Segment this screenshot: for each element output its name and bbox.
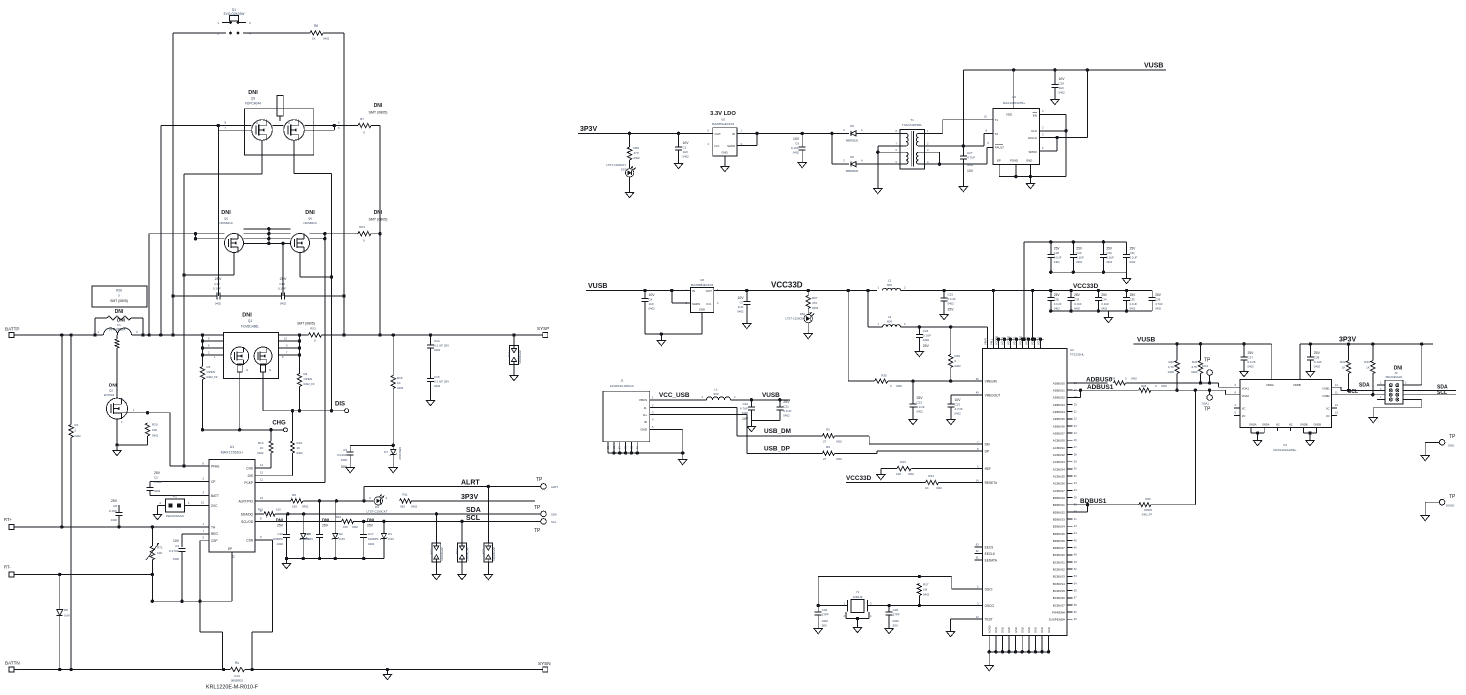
svg-text:VDD: VDD — [1006, 113, 1013, 117]
svg-text:T2: T2 — [995, 132, 999, 136]
net SCL — [466, 515, 481, 522]
ground — [510, 372, 518, 381]
svg-text:0402: 0402 — [1106, 260, 1112, 264]
svg-text:ACBUS4: ACBUS4 — [1053, 467, 1065, 471]
net SDA — [466, 507, 481, 514]
svg-text:R50: R50 — [1145, 497, 1151, 501]
svg-text:D4: D4 — [388, 532, 392, 536]
wire — [1072, 389, 1139, 392]
svg-text:SCL: SCL — [466, 515, 481, 522]
svg-text:DIS: DIS — [248, 474, 253, 478]
wire — [303, 499, 374, 502]
wire — [901, 325, 988, 328]
net VUSB — [1137, 337, 1156, 344]
capacitor C3 — [169, 539, 185, 561]
wire Q6 right — [310, 232, 359, 240]
svg-text:C12: C12 — [214, 282, 220, 286]
ground — [1306, 437, 1314, 446]
svg-text:SUSPEND#: SUSPEND# — [1049, 618, 1066, 622]
svg-text:GNDB: GNDB — [1300, 422, 1308, 426]
ground — [804, 330, 812, 339]
svg-text:600: 600 — [887, 283, 892, 287]
svg-text:365: 365 — [400, 505, 405, 509]
wire 3P3V — [412, 500, 536, 502]
wire — [1072, 503, 1139, 506]
svg-text:C3: C3 — [175, 544, 179, 548]
ground — [1026, 180, 1034, 189]
resistor R14 — [257, 441, 273, 455]
svg-text:J1: J1 — [620, 379, 624, 383]
svg-text:10V: 10V — [793, 137, 800, 141]
wire — [323, 32, 344, 34]
node — [60, 333, 516, 336]
svg-text:ADBUS0: ADBUS0 — [1053, 381, 1065, 385]
wire — [14, 573, 152, 576]
svg-text:VCORE: VCORE — [994, 336, 998, 345]
capacitor C23 — [947, 398, 962, 416]
svg-text:TP: TP — [536, 477, 543, 483]
svg-text:0.1UF: 0.1UF — [1076, 256, 1084, 260]
wire Q1 left pins — [201, 335, 224, 366]
svg-text:0402: 0402 — [683, 155, 690, 159]
svg-text:R24: R24 — [359, 225, 365, 229]
svg-text:10V: 10V — [173, 539, 180, 543]
svg-text:4.7K: 4.7K — [1191, 365, 1197, 369]
resistor R3 — [200, 365, 218, 380]
svg-text:VCCIO: VCCIO — [1000, 337, 1004, 345]
svg-text:DNI: DNI — [367, 518, 374, 523]
svg-text:SHDN: SHDN — [692, 302, 700, 306]
net 3P3V — [580, 126, 597, 133]
svg-text:C: C — [843, 129, 845, 132]
resistor R2 — [823, 428, 843, 444]
svg-text:150: 150 — [343, 525, 348, 529]
svg-text:GND: GND — [1001, 627, 1005, 633]
svg-text:SYSN: SYSN — [538, 661, 551, 666]
svg-text:0402: 0402 — [893, 619, 900, 623]
wire SDA — [1332, 387, 1385, 392]
svg-text:VDDA: VDDA — [1266, 383, 1274, 387]
svg-text:GND: GND — [1014, 627, 1018, 633]
svg-text:BCBUS1: BCBUS1 — [1053, 560, 1065, 564]
capacitor C18 — [299, 501, 329, 559]
ground — [874, 185, 882, 194]
svg-text:C39: C39 — [893, 608, 899, 612]
test point TP SDA — [534, 505, 557, 517]
svg-text:ADBUS3: ADBUS3 — [1053, 403, 1065, 407]
svg-text:BATT: BATT — [211, 494, 219, 498]
svg-text:SDA/DQ: SDA/DQ — [241, 512, 254, 516]
wire DIS — [263, 372, 345, 412]
svg-text:470: 470 — [812, 301, 817, 305]
svg-text:4.7UF: 4.7UF — [740, 407, 748, 411]
svg-text:0402: 0402 — [1130, 307, 1136, 311]
wire — [856, 163, 900, 165]
svg-text:0402: 0402 — [1076, 260, 1082, 264]
wire — [170, 413, 209, 468]
svg-text:0402: 0402 — [836, 439, 842, 443]
pin numbers Q3 — [224, 121, 340, 130]
wire — [121, 411, 170, 414]
diode D4 — [380, 521, 394, 558]
wire — [171, 294, 345, 297]
wire 3P3V — [1300, 342, 1433, 345]
svg-text:GNDA: GNDA — [1262, 422, 1270, 426]
svg-text:12MHZ: 12MHZ — [853, 595, 863, 599]
wire TH — [14, 525, 209, 528]
wire — [856, 132, 900, 134]
svg-text:PEC04DAAN: PEC04DAAN — [1386, 375, 1403, 379]
svg-text:BDBUS5: BDBUS5 — [1053, 532, 1065, 536]
svg-text:D: D — [255, 122, 259, 124]
svg-text:0402: 0402 — [323, 37, 330, 41]
wire — [901, 289, 1033, 292]
svg-text:C4: C4 — [649, 298, 653, 302]
svg-text:EN: EN — [1033, 114, 1037, 118]
net ADBUS1 — [1087, 384, 1114, 391]
resistor R41 — [1191, 344, 1202, 383]
svg-text:R1: R1 — [75, 423, 79, 427]
svg-text:0402: 0402 — [1191, 370, 1198, 374]
svg-text:0402: 0402 — [1101, 307, 1107, 311]
net VUSB — [1144, 63, 1163, 70]
capacitor C9 — [791, 133, 806, 159]
svg-text:C25: C25 — [948, 293, 954, 297]
transistor Q3 — [245, 90, 314, 155]
thermistor RT1 — [146, 527, 163, 601]
svg-text:0.1UF: 0.1UF — [1054, 302, 1062, 306]
wire — [202, 380, 204, 430]
svg-text:0402: 0402 — [812, 306, 819, 310]
ground — [1051, 96, 1059, 105]
wire — [255, 500, 291, 502]
svg-text:FDPC4044: FDPC4044 — [245, 102, 261, 106]
net SDA — [1437, 384, 1448, 390]
svg-text:GND: GND — [1040, 627, 1044, 633]
svg-text:0.6V: 0.6V — [388, 537, 394, 541]
test point TP DGND — [1425, 494, 1456, 512]
svg-text:VCC33D: VCC33D — [1073, 283, 1099, 290]
capacitor C39 — [886, 606, 900, 628]
net 3P3V — [1339, 337, 1356, 344]
wire — [255, 411, 292, 476]
svg-text:1K: 1K — [297, 446, 301, 450]
svg-text:GND: GND — [1020, 627, 1024, 633]
svg-text:C5: C5 — [343, 448, 347, 452]
svg-text:4.7UF: 4.7UF — [955, 407, 963, 411]
svg-text:VUSB: VUSB — [762, 392, 780, 399]
wire VUSB rail — [586, 289, 690, 292]
net USB_DM — [764, 428, 791, 435]
capacitor C38 — [1307, 344, 1322, 368]
svg-text:Q5: Q5 — [224, 217, 228, 221]
svg-text:10V: 10V — [737, 296, 744, 300]
svg-text:0.1UF: 0.1UF — [1054, 256, 1062, 260]
resistor R66 — [627, 133, 640, 160]
resistor R1 — [69, 423, 81, 438]
svg-text:0402: 0402 — [1155, 307, 1161, 311]
svg-text:C1: C1 — [683, 146, 687, 150]
wire — [835, 451, 983, 453]
wire — [868, 604, 983, 607]
svg-text:1K: 1K — [1342, 366, 1346, 370]
svg-text:C15: C15 — [434, 375, 440, 379]
svg-text:150: 150 — [276, 507, 281, 511]
svg-text:SHDN: SHDN — [727, 144, 735, 148]
ground — [947, 416, 955, 425]
ground — [426, 397, 434, 406]
svg-text:EP: EP — [228, 547, 232, 551]
svg-text:D8: D8 — [64, 608, 68, 612]
transformer T1 — [896, 118, 929, 169]
svg-text:0.6V: 0.6V — [64, 614, 70, 618]
svg-text:EECLK: EECLK — [985, 552, 996, 556]
svg-text:25V: 25V — [1101, 293, 1108, 297]
svg-text:R16: R16 — [397, 376, 403, 380]
wire — [737, 132, 804, 135]
wire — [61, 335, 63, 527]
svg-text:BDBUS2: BDBUS2 — [1053, 510, 1065, 514]
svg-text:C7: C7 — [740, 301, 744, 305]
svg-text:VCORE: VCORE — [1006, 336, 1010, 345]
wire — [255, 430, 271, 468]
svg-text:1000PF: 1000PF — [299, 537, 310, 541]
svg-text:SCL1: SCL1 — [1202, 364, 1209, 368]
svg-text:R13: R13 — [336, 515, 342, 519]
svg-text:PWREN#: PWREN# — [1052, 611, 1065, 615]
svg-text:0402: 0402 — [341, 458, 348, 462]
wire — [239, 372, 241, 430]
svg-text:4.7K: 4.7K — [1168, 365, 1174, 369]
capacitor C5 — [337, 445, 354, 469]
U2 right pins — [1049, 381, 1078, 622]
svg-text:D1: D1 — [375, 505, 379, 509]
wire — [343, 296, 345, 335]
svg-text:C31: C31 — [1130, 251, 1136, 255]
svg-text:R10: R10 — [258, 507, 264, 511]
svg-text:0402: 0402 — [397, 386, 404, 390]
wire — [1403, 344, 1422, 385]
resistor R42 — [1340, 344, 1351, 390]
svg-text:Q6: Q6 — [308, 217, 312, 221]
capacitor C26 — [1051, 70, 1065, 96]
svg-text:VCCIO: VCCIO — [1037, 337, 1041, 345]
svg-text:DIS: DIS — [335, 402, 345, 408]
svg-text:BATTP: BATTP — [5, 327, 19, 332]
svg-text:NDS8410: NDS8410 — [303, 221, 316, 225]
svg-text:OPEN: OPEN — [207, 370, 216, 374]
svg-text:VCC33D: VCC33D — [771, 281, 803, 290]
svg-text:L2: L2 — [888, 279, 892, 283]
svg-text:Q1: Q1 — [248, 319, 252, 323]
svg-text:GND: GND — [1007, 627, 1011, 633]
LED D52 — [785, 309, 814, 331]
wire ALRT — [364, 485, 541, 501]
wire VUSB — [1134, 342, 1272, 345]
svg-text:BDBUS6: BDBUS6 — [1053, 539, 1065, 543]
svg-text:0402: 0402 — [280, 302, 287, 306]
svg-text:BDBUS1: BDBUS1 — [1080, 498, 1107, 505]
svg-text:BCBUS0: BCBUS0 — [1053, 553, 1065, 557]
capacitor bank C32-C36 — [1031, 289, 1163, 341]
svg-text:L3: L3 — [888, 315, 892, 319]
svg-text:R19: R19 — [297, 441, 303, 445]
resistor R19 — [290, 441, 303, 455]
svg-text:U2: U2 — [1070, 348, 1074, 352]
svg-text:BCBUS4: BCBUS4 — [1053, 582, 1065, 586]
wire — [1039, 70, 1087, 139]
wire — [876, 146, 900, 185]
svg-text:AGND: AGND — [987, 625, 991, 633]
svg-text:TGM-010P3RL: TGM-010P3RL — [902, 123, 923, 127]
svg-text:50V: 50V — [822, 624, 827, 628]
wire — [650, 399, 707, 401]
ground — [458, 571, 466, 580]
svg-text:0402: 0402 — [1054, 260, 1060, 264]
wire USB_DM — [650, 408, 823, 436]
svg-text:0402: 0402 — [1130, 260, 1136, 264]
svg-text:C34: C34 — [1101, 298, 1107, 302]
svg-text:600: 600 — [887, 320, 892, 324]
svg-text:R39: R39 — [1110, 377, 1116, 381]
IC U2 FT2232HL — [983, 348, 1085, 635]
svg-text:DP: DP — [985, 450, 989, 454]
svg-text:R33: R33 — [900, 460, 906, 464]
svg-text:ACBUS0: ACBUS0 — [1053, 439, 1065, 443]
svg-text:0402: 0402 — [277, 542, 284, 546]
svg-text:1UF: 1UF — [738, 305, 744, 309]
svg-text:25V: 25V — [1248, 351, 1255, 355]
capacitor C17 — [360, 518, 378, 559]
wire — [925, 120, 993, 134]
svg-text:ADBUS6: ADBUS6 — [1053, 424, 1065, 428]
ground — [721, 163, 729, 172]
svg-text:0402: 0402 — [75, 434, 82, 438]
wire — [912, 468, 983, 470]
svg-text:VPHY: VPHY — [984, 338, 988, 345]
svg-text:0.1UF: 0.1UF — [917, 405, 925, 409]
svg-text:Y1: Y1 — [856, 590, 860, 594]
net SCL — [1348, 389, 1358, 395]
svg-text:0.1UF: 0.1UF — [1106, 256, 1114, 260]
test point TP SCL1 — [1202, 358, 1212, 384]
svg-text:ALRT: ALRT — [551, 485, 558, 489]
svg-text:0.1UF: 0.1UF — [1101, 302, 1109, 306]
test point TP SCL — [534, 519, 557, 534]
wire ZVC — [185, 505, 210, 507]
transistor Q5 — [219, 210, 243, 253]
ground — [153, 511, 161, 520]
svg-text:25V: 25V — [1106, 247, 1113, 251]
node DIS — [335, 402, 349, 413]
resistor R50 — [1139, 497, 1153, 517]
resistor R67 — [806, 291, 819, 311]
wire — [173, 32, 310, 34]
transistor Q6 — [291, 210, 317, 253]
wire — [925, 134, 993, 148]
resistor R8 — [291, 493, 309, 509]
svg-text:ALRT: ALRT — [461, 479, 480, 486]
svg-text:R40: R40 — [1168, 360, 1174, 364]
connector J1 USB — [603, 379, 654, 454]
svg-text:0.1UF: 0.1UF — [154, 480, 162, 484]
svg-text:1K: 1K — [397, 381, 401, 385]
svg-text:SDA: SDA — [1359, 383, 1370, 389]
svg-text:OUT: OUT — [715, 132, 722, 136]
svg-text:C35: C35 — [1130, 298, 1136, 302]
svg-text:R9: R9 — [826, 445, 830, 449]
svg-text:SMT (0805): SMT (0805) — [369, 111, 388, 115]
svg-text:GND: GND — [1027, 627, 1031, 633]
wire — [650, 429, 683, 456]
resistor R37 — [917, 583, 929, 606]
svg-text:D2: D2 — [339, 532, 343, 536]
svg-text:150: 150 — [292, 505, 297, 509]
ground — [885, 625, 893, 634]
svg-text:0402: 0402 — [1248, 365, 1255, 369]
svg-text:ADBUS2: ADBUS2 — [1053, 396, 1065, 400]
capacitor C16 — [272, 514, 290, 559]
capacitor C12 — [213, 277, 222, 306]
wire BATTP rail — [14, 334, 542, 336]
ground — [798, 159, 806, 168]
svg-text:1K: 1K — [925, 486, 929, 490]
svg-text:TP: TP — [1204, 358, 1211, 364]
wire NC stubs — [1277, 427, 1290, 431]
diode D3 — [300, 514, 314, 559]
test point TP GND — [1425, 434, 1456, 452]
capacitor C37 — [1241, 344, 1256, 369]
svg-text:25V: 25V — [1054, 247, 1061, 251]
svg-text:OPEN: OPEN — [304, 377, 313, 381]
wire — [645, 312, 702, 337]
svg-text:I/OB1: I/OB1 — [1323, 386, 1331, 390]
svg-text:T1: T1 — [995, 118, 999, 122]
resistor R38 — [1139, 384, 1168, 392]
resistor R33 — [896, 460, 914, 476]
terminal RT- — [4, 565, 14, 577]
svg-text:C23: C23 — [955, 403, 961, 407]
svg-text:BATTN: BATTN — [5, 661, 20, 666]
wire — [115, 419, 118, 447]
svg-text:U3: U3 — [1283, 443, 1287, 447]
svg-text:GND: GND — [1026, 159, 1032, 163]
wire VDD — [1013, 70, 1015, 109]
wire BATT — [150, 482, 209, 496]
wire gate bus right — [330, 173, 333, 410]
svg-text:PFAIL: PFAIL — [211, 465, 220, 469]
inductor L2 — [878, 279, 906, 291]
svg-text:0402_FF: 0402_FF — [304, 382, 315, 386]
svg-text:0402: 0402 — [923, 593, 930, 597]
svg-text:10K: 10K — [152, 428, 157, 432]
svg-text:0.1UF: 0.1UF — [923, 334, 931, 338]
svg-text:1M: 1M — [923, 588, 928, 592]
svg-text:ACBUS1: ACBUS1 — [1053, 446, 1065, 450]
svg-text:CSN: CSN — [246, 538, 253, 542]
wire SCL — [255, 520, 342, 522]
svg-text:0402: 0402 — [1059, 91, 1066, 95]
svg-text:0.1UF: 0.1UF — [1314, 360, 1322, 364]
svg-text:DGND: DGND — [1446, 504, 1454, 508]
svg-text:0402: 0402 — [923, 338, 930, 342]
svg-text:25V: 25V — [154, 471, 161, 475]
svg-text:KRL1220E-M-R010-F: KRL1220E-M-R010-F — [206, 685, 259, 691]
svg-text:MAX14931AWE+: MAX14931AWE+ — [1273, 448, 1297, 452]
ground — [1421, 452, 1429, 461]
svg-text:N.C.: N.C. — [706, 302, 712, 306]
net ADBUS0 — [1086, 377, 1113, 384]
